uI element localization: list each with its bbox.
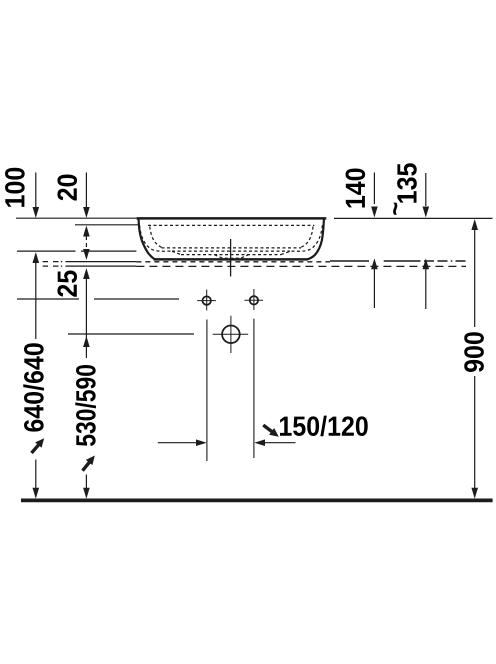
basin inner bowl contour upper [150,227,313,248]
dimension 140 stem upper [373,173,375,205]
faucet hole left extension line down [206,320,208,462]
label 140 [346,168,366,207]
hidden line under basin [136,261,330,263]
arrowhead 20 up at inner rim [83,226,90,237]
basin bottom line [154,258,309,261]
countertop dash-dot line left [43,261,137,263]
dimension ~135 stem upper [425,173,427,206]
label 25 [57,270,77,296]
arrowhead 140 up at dashdot [371,258,378,269]
dimension 640/640 stem lower [35,460,37,489]
rim extension line left [16,217,136,219]
dimension 150/120 line right [263,442,296,444]
inner rim extension line [75,224,140,226]
arrowhead 140 down at rim [371,207,378,218]
arrowhead 100/640 up at countertop [33,252,40,263]
dimension ~135 stem lower [425,269,427,309]
arrowhead 25 up at lower line [83,268,90,279]
faucet hole right [250,296,258,304]
arrowhead 900 up at rim [471,219,478,230]
adjustability arrow at 640/640 [28,435,47,455]
drain trap hidden outline [215,255,249,259]
arrowhead 25 down at dashdot [83,249,90,260]
arrowhead 900 down at floor [471,488,478,499]
basin right outer wall [308,219,324,259]
label 900 [464,332,484,372]
arrowhead ~135 up at dashdot [423,258,430,269]
dimension 900 stem [474,230,476,489]
label 20 [57,175,77,201]
basin left outer wall [139,219,155,259]
arrowhead 20 down at rim [83,207,90,218]
dimension 20 stem upper [85,173,87,208]
arrowhead ~135 down at rim [423,207,430,218]
label 640/640 [23,343,44,431]
arrowhead 530/590 up at drain level [83,336,90,347]
label 530/590 [75,365,96,446]
adjustability arrow at 150/120 [261,422,282,440]
dimension 530/590 stem lower [85,475,87,489]
drain center extension line [68,333,194,335]
faucet hole left crosshair [197,290,216,311]
basin inner rim hidden line [148,224,314,226]
faucet hole right extension line down [253,319,255,458]
adjustability arrow at 530/590 [79,453,98,473]
floor line [21,498,493,502]
label 100 [5,168,25,207]
arrowhead 150/120 right [196,439,207,446]
dimension 25 stem lower [85,279,87,358]
basin rim top line [137,217,327,220]
arrowhead 640/640 down at floor [33,488,40,499]
drain hole [222,326,240,344]
rim extension line right [334,217,493,219]
countertop dash-dot line right [330,260,466,262]
basin inner bowl contour lower [140,225,323,251]
dimension 150/120 line left [158,442,296,444]
dimension 20-25 dashed stem [85,236,87,249]
drain hole crosshair [213,316,249,353]
arrowhead 530/590 down at floor [83,488,90,499]
faucet hole level extension line [17,298,179,300]
arrowhead 150/120 left [254,439,265,446]
lower hidden dashed line [136,265,466,267]
label ~135 [397,163,417,202]
dimension 100 stem upper [35,173,37,208]
faucet hole left [203,296,211,304]
lower reference line left solid [43,265,137,267]
countertop reference line left [17,250,136,252]
basin centerline [230,239,232,277]
faucet hole right crosshair [244,289,263,310]
drain recess hidden outline [172,251,290,254]
dimension 100/640 shared stem [35,263,37,339]
arrowhead 100 down at rim [33,207,40,218]
dimension 140 stem lower [373,269,375,308]
label 150/120 [280,416,368,437]
